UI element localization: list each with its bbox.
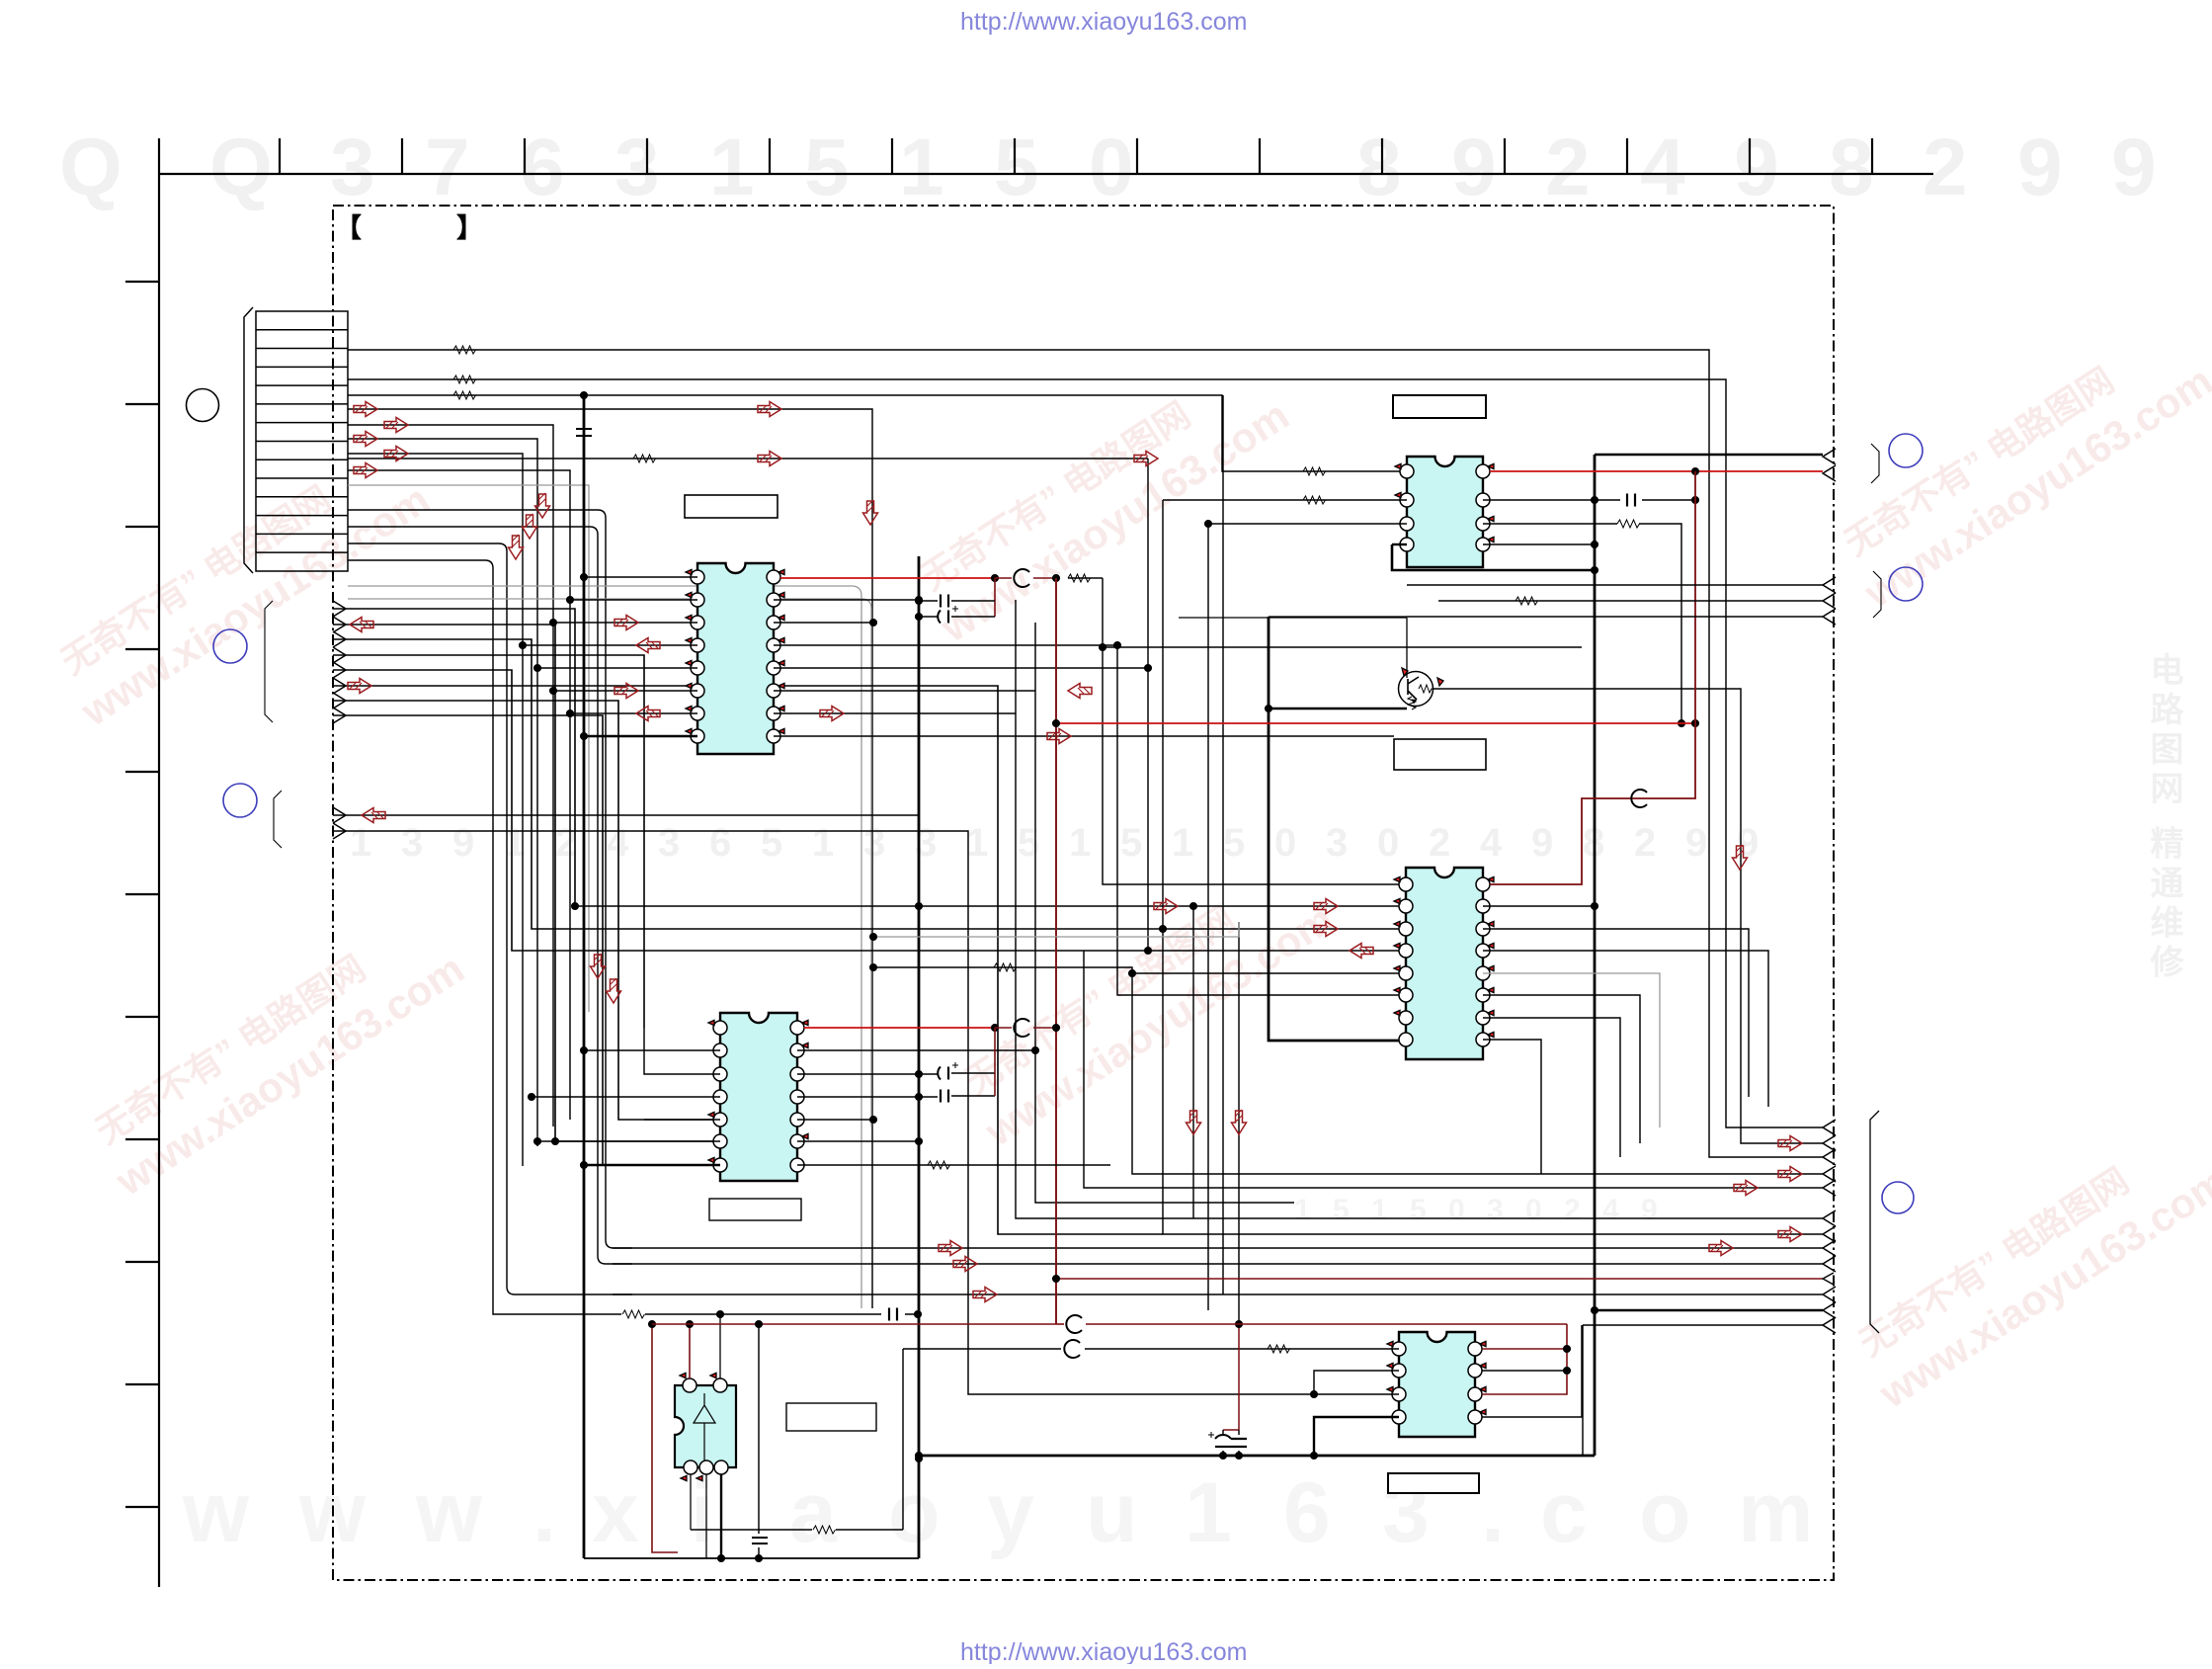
arrow bus 1755,1202 (1734, 1181, 1758, 1196)
arrow on L1-6 (348, 679, 371, 694)
wire entry L1-3 (333, 631, 346, 647)
IC U6 pin 1 (top) (683, 1378, 696, 1392)
IC U5 pin 4 (left) (1392, 1410, 1406, 1424)
IC U5 pin 6 (right) (1468, 1387, 1482, 1401)
wire exit y608 (1438, 600, 1823, 602)
IC U1 pin 4 (left) (691, 638, 704, 652)
wire trunk x1048 (1035, 623, 1294, 1203)
wire U6 pin4 down (705, 1474, 707, 1558)
svg-text:3: 3 (863, 821, 885, 865)
svg-text:1: 1 (966, 821, 988, 865)
IC U2 pin 13 (right) (790, 1043, 804, 1057)
watermark: big faint digits row (top) (59, 123, 2157, 212)
svg-text:9: 9 (2111, 123, 2157, 212)
wire U2 pin13 right (797, 1049, 1035, 1051)
C-mark net2 (995, 1027, 1012, 1029)
svg-text:x: x (592, 1465, 639, 1560)
arrow fan 358,444 (354, 432, 377, 447)
svg-text:2: 2 (1564, 1194, 1581, 1226)
wire trunk x1097 (1084, 951, 1823, 1188)
wire entry L1-6 (333, 678, 346, 694)
arrow bus 1730,1263 (1709, 1241, 1733, 1256)
wire net CN-6 trunk x544 (348, 439, 537, 1146)
wire U4 pin10 right (1483, 1018, 1620, 1157)
wire U1 pin12 right (774, 667, 1148, 669)
wire U1 pin10 right (774, 712, 1016, 714)
wire U4 pin15 right (1483, 905, 1595, 907)
wire thick top right exit y460 (1595, 454, 1823, 457)
svg-text:9: 9 (1734, 123, 1779, 212)
wire trunk x1177 (1163, 500, 1823, 1234)
IC U2 pin 2 (left) (713, 1043, 727, 1057)
capacitor C2a polar (919, 1073, 995, 1074)
IC U2 body (720, 1013, 797, 1181)
IC U4 pin 4 (left) (1399, 944, 1413, 958)
wire entry L1-7 (333, 693, 346, 709)
IC U6 pin ticks (680, 1373, 686, 1377)
wire U5 pin5 right (1482, 1325, 1582, 1417)
wire U4 pin9 right (1483, 1040, 1541, 1174)
svg-text:w: w (415, 1465, 483, 1560)
chevron exit y1171 (1823, 1149, 1836, 1165)
ruler: vertical line with ticks (left) (125, 138, 159, 1587)
IC U4 pin 10 (right) (1476, 1011, 1490, 1025)
wire trunk x1146 (873, 967, 1823, 1174)
wire U6 pin2 drop (719, 1314, 721, 1378)
wire U2 pin8 right (797, 1164, 1110, 1166)
wire trunk x1208 (1192, 906, 1194, 1218)
arrow U1 pin4 (636, 638, 660, 653)
IC U1 pin 8 (left) (691, 729, 704, 743)
IC U4 pin 3 (left) (1399, 922, 1413, 936)
wire bottom line y1577 (584, 1557, 919, 1559)
wire net CN-3 to IC3 pin1 (348, 395, 1407, 471)
svg-text:1: 1 (709, 123, 755, 212)
wire Q1 base (1406, 618, 1408, 678)
svg-text:3: 3 (401, 821, 423, 865)
wire bus y1310 (613, 1293, 1823, 1295)
svg-text:1: 1 (1294, 1194, 1311, 1226)
svg-text:4: 4 (1480, 821, 1503, 865)
svg-text:2: 2 (1545, 123, 1591, 212)
down arrow 536,545 (523, 514, 537, 539)
wire entry L1-5 (333, 662, 346, 678)
IC U1 pin 10 (right) (767, 707, 780, 720)
C-mark net1 (995, 577, 1012, 579)
svg-text:5: 5 (804, 123, 850, 212)
wire U3 pin2 left (1163, 499, 1407, 501)
chevron exit y1157 (1823, 1135, 1836, 1151)
watermark: big faint bottom url text (182, 1465, 1813, 1560)
bracket left group1 (265, 601, 273, 722)
arrow fan 358,476 (354, 463, 377, 478)
svg-text:y: y (987, 1465, 1034, 1560)
svg-text:4: 4 (1640, 123, 1685, 212)
wire net CNB-1 (348, 510, 632, 1248)
svg-text:8: 8 (1829, 123, 1874, 212)
watermark: faint digits row (middle) (350, 821, 1759, 865)
IC U6 pin 2 (top) (713, 1378, 727, 1392)
chevron exit y1341 (1823, 1317, 1836, 1333)
wire thick y577 from IC3 pin4 (1392, 544, 1595, 570)
svg-text:o: o (888, 1465, 941, 1560)
IC U2 pin 8 (right) (790, 1158, 804, 1172)
IC U3 body (1407, 457, 1483, 567)
IC U1 pin 5 (left) (691, 661, 704, 675)
watermark: faint digits row (lower right) (1294, 1194, 1658, 1226)
IC U6 pin 4 (bottom) (699, 1460, 713, 1474)
IC U2 pin red ticks (708, 1020, 808, 1162)
chevron exit y1233 (1823, 1210, 1836, 1226)
tick Q1b (1437, 678, 1443, 686)
svg-text:0: 0 (1525, 1194, 1542, 1226)
wire U4 pin16 red (1490, 471, 1695, 884)
wire net CN-8 trunk x577 (348, 470, 570, 1120)
wire dark red cap feed x1254 (1223, 1324, 1239, 1430)
IC U1 pin 16 (right) (767, 570, 780, 584)
arrows into U4 left (1154, 899, 1178, 914)
IC U2 pin 1 (left) (713, 1021, 727, 1035)
arrow fan 358,414 (354, 402, 377, 417)
wire thick y717 transistor emitter rail (1269, 708, 1407, 710)
svg-text:.: . (1481, 1465, 1505, 1560)
wire U5 pin7 right (1482, 1370, 1567, 1372)
svg-text:3: 3 (1487, 1194, 1504, 1226)
wire U1 pin13 right (774, 644, 1117, 646)
label box LB3 (1393, 395, 1486, 418)
wire net CN-4 trunk x883 (348, 409, 872, 1308)
IC U5 pin 2 (left) (1392, 1364, 1406, 1377)
wire U4 pin11 right (1483, 995, 1640, 1143)
IC U1 pin 3 (left) (691, 616, 704, 629)
svg-text:3: 3 (1326, 821, 1348, 865)
IC U2 pin 12 (right) (790, 1067, 804, 1081)
arrow bus 1800,1249 (1778, 1227, 1802, 1242)
arrow fan 1148,464 (1134, 452, 1158, 466)
wire trunk x1116 (1103, 578, 1582, 884)
wire thick y1326 to border (1595, 1309, 1823, 1311)
IC U1 pin 14 (right) (767, 616, 780, 629)
IC U3 pin 7 (right) (1476, 493, 1490, 507)
arrow bus 950,1263 (939, 1241, 962, 1256)
wire U2 pin5 left (644, 1119, 720, 1121)
IC U6 pin 3 (bottom) (684, 1460, 697, 1474)
svg-text:o: o (1639, 1465, 1691, 1560)
wire U5 pin8 right red (1482, 1348, 1567, 1350)
wire trunk x1162 (1147, 459, 1149, 951)
ruler: horizontal line with ticks (top) (159, 138, 1933, 174)
svg-text:2: 2 (555, 821, 577, 865)
trunk dark red x1069 (1055, 578, 1057, 1324)
wire U6 pin3 down (690, 1474, 692, 1530)
wire net CN-7 trunk x529 (348, 454, 523, 1166)
IC U4 pin red ticks (1394, 876, 1494, 1037)
bracket right group1 (1871, 444, 1879, 483)
arrow fan 767,464 (758, 452, 781, 466)
IC U3 pin 8 (right) (1476, 464, 1490, 478)
wire trunk x1028 (1016, 600, 1110, 1218)
arrow bus 965,1279 (953, 1257, 977, 1272)
wire U3 pin3 left (1208, 523, 1407, 525)
chevron exit y1141 (1823, 1120, 1836, 1135)
chevron exit y1202 (1823, 1180, 1836, 1196)
down arrow 549,524 (535, 493, 550, 518)
label box LB2 (709, 1199, 801, 1220)
bracket right group3 (1870, 1111, 1879, 1333)
svg-text:u: u (1086, 1465, 1138, 1560)
wire U3 pin4 left corner (1392, 543, 1407, 545)
wire dark red bottom y1340 (652, 1323, 1056, 1325)
wire U4 pin14 right (1483, 929, 1749, 1097)
down arrows right col (1733, 845, 1748, 870)
wire U2 pin14 red net (804, 1027, 993, 1029)
IC U2 pin 6 (left) (713, 1134, 727, 1148)
chevron exit y462 (1823, 449, 1836, 464)
wire U2 pin7 left (thick) (584, 1164, 720, 1166)
wire entry L2-1 (333, 807, 346, 823)
IC U6 pin 5 (bottom) (714, 1460, 728, 1474)
wire U1 pin2 left (570, 599, 697, 601)
IC U1 body (697, 563, 774, 754)
wire gray stubs from connector lower rows (348, 586, 861, 1308)
tick Q1 (1402, 668, 1408, 676)
wire U4 pin13 right (1483, 951, 1768, 1107)
svg-text:5: 5 (1410, 1194, 1427, 1226)
IC U4 pin 5 (left) (1399, 966, 1413, 980)
wire U5 pin4 left thick (1314, 1417, 1399, 1456)
IC U4 pin 11 (right) (1476, 988, 1490, 1002)
IC U1 pin 9 (right) (767, 729, 780, 743)
svg-text:6: 6 (520, 123, 565, 212)
wire U1 pin4 left (523, 644, 697, 646)
svg-text:2: 2 (1429, 821, 1450, 865)
IC U3 pin 6 (right) (1476, 517, 1490, 531)
svg-text:a: a (789, 1465, 838, 1560)
svg-text:9: 9 (1531, 821, 1553, 865)
trunk wire x930 (thick) (918, 556, 921, 1558)
svg-text:w: w (182, 1465, 250, 1560)
wire U1 pin16 red net (780, 577, 993, 579)
svg-text:0: 0 (1377, 821, 1399, 865)
label box LB6 (786, 1403, 876, 1431)
svg-text:Q: Q (59, 123, 123, 212)
svg-text:2: 2 (1634, 821, 1656, 865)
wire U3 pin7 right cap net (1483, 499, 1695, 501)
wire U1 pin6 left (553, 690, 697, 692)
IC U2 pin 7 (left) (713, 1158, 727, 1172)
chevron exit y1279 (1823, 1256, 1836, 1272)
IC U4 pin 8 (left) (1399, 1033, 1413, 1046)
wire U4 pin5 left (1132, 972, 1406, 974)
svg-text:m: m (1738, 1465, 1813, 1560)
svg-text:9: 9 (1641, 1194, 1658, 1226)
IC U6 body (675, 1385, 736, 1467)
IC U6 inverter symbol (694, 1393, 715, 1462)
label box LB5 (1388, 1473, 1479, 1493)
arrow U1 pin11 (1068, 684, 1092, 699)
IC U5 pin 7 (right) (1468, 1364, 1482, 1377)
svg-text:9: 9 (452, 821, 474, 865)
chevron exit y1326 (1823, 1302, 1836, 1318)
reference circle D (1889, 434, 1923, 467)
svg-text:1: 1 (812, 821, 834, 865)
wire net y464 (348, 458, 1148, 459)
reference circle B (213, 629, 247, 663)
svg-text:.: . (533, 1465, 556, 1560)
wire trunk x1223 (1207, 524, 1209, 1310)
svg-text:3: 3 (658, 821, 680, 865)
svg-text:0: 0 (1274, 821, 1296, 865)
wire entry L1-8 (333, 708, 346, 723)
down arrow 522,566 (509, 535, 524, 559)
IC U3 pin 4 (left) (1400, 538, 1414, 551)
IC U4 pin 2 (left) (1399, 899, 1413, 913)
wire dark red jog to caps2 (994, 1028, 996, 1096)
wire U1 pin1 left (584, 576, 697, 578)
IC U1 pin 1 (left) (691, 570, 704, 584)
down arrows under U4 (1187, 1110, 1201, 1134)
capacitor C5a polar (1222, 1430, 1224, 1456)
capacitor C1a (919, 600, 995, 602)
IC U1 pin 7 (left) (691, 707, 704, 720)
IC U3 pin 5 (right) (1476, 538, 1490, 551)
label box LB1 (685, 495, 778, 518)
arrow on L1-2 (350, 618, 373, 632)
down arrow 881,531 (863, 500, 878, 525)
border: dash-dot frame of schematic block (333, 206, 1834, 1580)
label box LBQ (1394, 739, 1486, 770)
chevron exit y1263 (1823, 1240, 1836, 1256)
arrow fan 389,430 (384, 418, 408, 433)
svg-text:9: 9 (1451, 123, 1497, 212)
wire gray stair 2 (873, 922, 1239, 937)
svg-text:】: 】 (456, 213, 483, 243)
IC U1 pin 2 (left) (691, 593, 704, 607)
reference circle E (1889, 567, 1923, 601)
wire U1 pin8 left (thick) (584, 735, 697, 737)
IC U2 pin 10 (right) (790, 1113, 804, 1127)
svg-text:5: 5 (1120, 821, 1142, 865)
reference circle A (187, 389, 219, 422)
arrow fan 389,459 (384, 447, 408, 461)
wire U1 pin3 left (553, 622, 697, 624)
wire thick bottom bus y1473 (919, 1455, 1595, 1458)
arrow bus 1800,1157 (1778, 1136, 1802, 1151)
svg-text:5: 5 (761, 821, 782, 865)
bracket left group2 (274, 791, 282, 848)
IC U5 pin 3 (left) (1392, 1387, 1406, 1401)
wire U1 pin15 right (774, 599, 919, 601)
down arrow 605,990 (591, 954, 606, 978)
wire exit y624 (1823, 609, 1836, 625)
IC U5 body (1399, 1332, 1475, 1437)
arrow bus 985,1310 (973, 1288, 997, 1302)
IC U4 pin 13 (right) (1476, 944, 1490, 958)
svg-text:1: 1 (899, 123, 944, 212)
svg-text:8: 8 (1356, 123, 1402, 212)
wire exit y592 (1407, 584, 1823, 586)
wire red long y732 (1056, 722, 1695, 724)
wire net CN-9 (gray) (348, 485, 589, 1012)
svg-text:http://www.xiaoyu163.com: http://www.xiaoyu163.com (960, 8, 1247, 36)
svg-text:0: 0 (1448, 1194, 1465, 1226)
capacitor C1b polar (919, 616, 995, 618)
IC U5 pin 8 (right) (1468, 1342, 1482, 1356)
wire net CNB-2 (348, 527, 632, 1264)
wire U2 pin11 right (797, 1096, 919, 1098)
IC U4 pin 15 (right) (1476, 899, 1490, 913)
wire U6 pin5 down thick (720, 1474, 722, 1558)
wire U1 pin7 left (570, 712, 697, 714)
wire U3 pin6 right resistor net (1483, 524, 1681, 723)
transistor Q1 (1399, 672, 1434, 710)
wire red loop around U5 (1482, 1324, 1567, 1394)
chevron exit y1310 (1823, 1287, 1836, 1302)
reference circle C (223, 784, 257, 817)
svg-text:5: 5 (1333, 1194, 1350, 1226)
IC U1 pin 12 (right) (767, 661, 780, 675)
svg-text:c: c (1540, 1465, 1588, 1560)
svg-text:5: 5 (994, 123, 1039, 212)
capacitor C-top on x591 (576, 429, 592, 436)
wire bus y1157 (from transistor) (1434, 689, 1823, 1143)
connector CN1 bracket (244, 307, 253, 573)
IC U1 pin 15 (right) (767, 593, 780, 607)
IC U5 pin 5 (right) (1468, 1410, 1482, 1424)
chevron exit red y1294 (1823, 1273, 1834, 1285)
svg-text:Q: Q (209, 123, 273, 212)
capacitor C2b (919, 1096, 995, 1097)
wire U3 pin5 right (1483, 543, 1595, 545)
IC U3 pin red ticks (1395, 463, 1494, 542)
wire U1 pin9 right (774, 735, 1394, 737)
IC U2 pin 11 (right) (790, 1090, 804, 1104)
capacitor C6 on x769 (758, 1324, 760, 1558)
arrow on L2-1 (362, 808, 385, 823)
bracket right group2 (1873, 571, 1881, 618)
IC U1 pin 11 (right) (767, 684, 780, 698)
svg-text:6: 6 (709, 821, 731, 865)
wire vertical x914 (902, 1349, 904, 1530)
svg-text:2: 2 (1923, 123, 1968, 212)
IC U4 pin 7 (left) (1399, 1011, 1413, 1025)
wire bus y1341 (1583, 1325, 1823, 1456)
watermark: pink diagonal site watermarks (44, 314, 2212, 1417)
svg-text:1: 1 (1069, 821, 1091, 865)
connector CN1 body (256, 311, 348, 571)
svg-text:4: 4 (1602, 1194, 1619, 1226)
svg-text:1: 1 (1185, 1465, 1232, 1560)
IC U2 pin 4 (left) (713, 1090, 727, 1104)
reference circle F (1882, 1182, 1914, 1213)
wire U5 pin3 left (1136, 1393, 1399, 1395)
wire trunk x1238 (1222, 395, 1224, 1294)
wire U6 pin1 red drop (689, 1324, 691, 1378)
wire bus y1279 (613, 1263, 1823, 1265)
wire dark red bus y1294 (1056, 1278, 1823, 1280)
wire dark red jog to caps (994, 578, 996, 617)
arrow U1 pin6 (614, 684, 638, 699)
wire U3 pin8 right red (1490, 470, 1823, 472)
arrow U1 pin7 (636, 707, 660, 721)
svg-text:1: 1 (350, 821, 371, 865)
IC U5 pin 1 (left) (1392, 1342, 1406, 1356)
svg-text:http://www.xiaoyu163.com: http://www.xiaoyu163.com (960, 1638, 1247, 1664)
wire entry L1-1 (333, 601, 346, 617)
trunk wire x591 (thick) (583, 395, 586, 1558)
chevron exit y479 (1823, 465, 1836, 481)
IC U1 pin 6 (left) (691, 684, 704, 698)
